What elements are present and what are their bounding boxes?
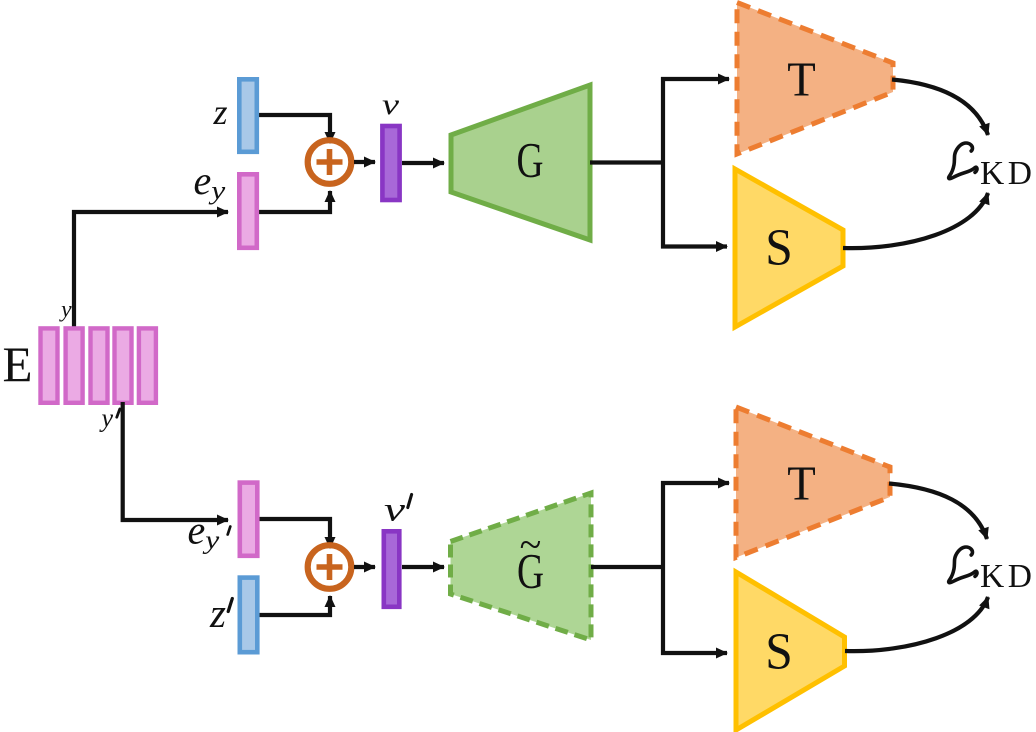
- student S2 pentagon: [736, 572, 845, 730]
- embedding bar 1: [41, 328, 58, 402]
- svg-text:S: S: [765, 220, 793, 277]
- split2 vertical: [661, 481, 665, 655]
- wire adder to v: [354, 160, 375, 164]
- svg-text:z: z: [212, 92, 227, 132]
- svg-text:KD: KD: [980, 558, 1035, 595]
- svg-text:KD: KD: [980, 155, 1035, 192]
- wire v to G: [402, 161, 444, 165]
- student S pentagon: [735, 169, 843, 327]
- v' bar: [384, 531, 400, 607]
- arrow to T: [661, 77, 729, 81]
- loss L_KD bottom: script L path: [949, 547, 977, 583]
- svg-text:G: G: [517, 132, 544, 188]
- adder2 circle plus: [308, 545, 352, 589]
- svg-text:y: y: [99, 404, 114, 433]
- adder circle plus: [308, 140, 352, 184]
- teacher T pentagon (dashed): [737, 3, 893, 155]
- z' bar: [240, 578, 257, 653]
- svg-text:v: v: [382, 89, 400, 121]
- embedding bar 2: [66, 328, 83, 402]
- loss L_KD top: script L path: [949, 143, 977, 179]
- svg-text:T: T: [787, 456, 816, 511]
- svg-text:ey: ey: [188, 508, 220, 555]
- curve T to loss: [892, 80, 988, 136]
- svg-text:E: E: [3, 337, 33, 392]
- z bar: [239, 79, 256, 152]
- wire adder2 to v': [354, 565, 375, 569]
- wire e_y' to adder2 top: [257, 519, 330, 548]
- generator G-tilde trapezoid (dashed): [451, 493, 592, 640]
- svg-text:y: y: [59, 297, 72, 323]
- arrow to T2: [661, 481, 729, 485]
- curve T2 to loss2: [889, 484, 987, 540]
- svg-text:~: ~: [520, 522, 542, 567]
- e_y' bar: [240, 483, 257, 556]
- embedding bar 5: [139, 328, 156, 402]
- wire z' to adder2 bottom: [257, 596, 330, 615]
- svg-text:z: z: [209, 590, 226, 636]
- svg-text:T: T: [787, 52, 816, 107]
- wire e_y to adder bottom: [257, 191, 330, 212]
- wire z to adder top: [257, 115, 330, 143]
- embedding bar 4: [115, 328, 132, 402]
- generator G trapezoid: [451, 85, 590, 240]
- svg-text:S: S: [765, 624, 793, 681]
- embedding bar 3: [91, 328, 108, 402]
- split vertical: [661, 77, 665, 249]
- wire y' from table to e_y': [123, 402, 228, 520]
- wire v' to G~: [402, 565, 444, 569]
- curve S to loss: [843, 193, 988, 248]
- wire G to split: [590, 160, 663, 164]
- curve S2 to loss2: [845, 597, 988, 651]
- svg-text:ey: ey: [194, 158, 226, 205]
- arrow to S: [661, 244, 727, 248]
- svg-text:v: v: [384, 492, 405, 529]
- v bar: [382, 126, 399, 200]
- wire E to e_y (via corner): [74, 212, 228, 329]
- wire G~ to split2: [591, 565, 663, 569]
- arrow to S2: [661, 651, 727, 655]
- teacher T2 pentagon (dashed): [736, 407, 890, 558]
- e_y bar: [239, 174, 256, 248]
